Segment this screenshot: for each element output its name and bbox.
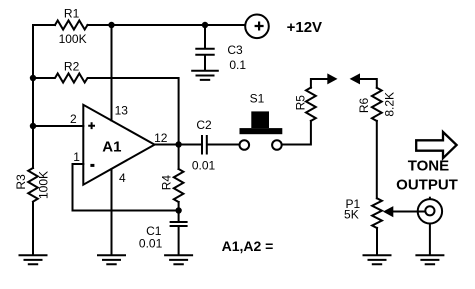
- junction node R4 C1: [175, 207, 181, 213]
- junction dot top rail C3: [202, 22, 208, 28]
- svg-text:+12V: +12V: [287, 19, 322, 36]
- wire left rail lower: [32, 202, 34, 254]
- svg-text:A1: A1: [102, 138, 121, 155]
- svg-text:4: 4: [119, 171, 126, 185]
- ground jack: [415, 255, 444, 264]
- wire arrow to R6: [360, 79, 377, 88]
- resistor R6: [372, 88, 382, 121]
- wire output node down: [178, 145, 180, 170]
- svg-text:OUTPUT: OUTPUT: [396, 176, 458, 193]
- wire top rail left segment: [33, 24, 55, 26]
- svg-text:12: 12: [154, 131, 168, 145]
- capacitor C2: [202, 136, 207, 154]
- svg-text:2: 2: [70, 112, 77, 126]
- wire R4 to node: [178, 202, 180, 221]
- svg-text:C3: C3: [227, 43, 243, 57]
- wire pin1 feedback: [73, 164, 179, 211]
- ground C3: [191, 71, 219, 80]
- resistor R2: [33, 74, 179, 145]
- switch S1 contact right: [272, 140, 282, 150]
- wire top rail right segment to +12V: [88, 24, 245, 26]
- ground P1: [363, 255, 392, 264]
- svg-text:R1: R1: [64, 7, 80, 21]
- wire C3 to ground: [204, 56, 206, 70]
- arrow to R6: [350, 73, 360, 84]
- svg-text:100K: 100K: [59, 32, 87, 46]
- svg-text:R4: R4: [159, 175, 173, 191]
- op-amp plus input mark: [88, 122, 95, 129]
- potentiometer P1: [372, 198, 382, 228]
- op-amp A1 triangle: [83, 105, 154, 185]
- resistor R1: [55, 21, 88, 30]
- wire R6 to P1: [376, 121, 378, 198]
- wire output pin12: [155, 144, 201, 146]
- capacitor C3: [196, 49, 213, 55]
- svg-text:R2: R2: [64, 59, 80, 73]
- wire pin2 input: [33, 125, 83, 127]
- switch S1 contact left: [240, 140, 250, 150]
- wire left rail upper: [32, 25, 34, 168]
- resistor R5: [306, 88, 316, 121]
- wire S1 to R5: [282, 121, 311, 145]
- wire C3 drop: [204, 25, 206, 48]
- svg-text:R5: R5: [294, 95, 308, 111]
- ground C1: [164, 255, 193, 264]
- ground left rail: [19, 255, 48, 264]
- output jack pin: [425, 206, 434, 215]
- output jack outer: [418, 199, 442, 223]
- resistor R4: [174, 169, 184, 202]
- wire C1 to ground: [178, 227, 180, 254]
- capacitor C1: [171, 222, 187, 226]
- svg-text:0.01: 0.01: [139, 237, 163, 251]
- svg-text:0.1: 0.1: [229, 58, 246, 72]
- junction dot top rail pin13: [108, 22, 114, 28]
- resistor R3: [28, 168, 38, 202]
- svg-text:R3: R3: [14, 174, 28, 190]
- wire jack to ground: [429, 224, 431, 254]
- svg-text:100K: 100K: [36, 171, 50, 199]
- svg-text:C2: C2: [196, 118, 212, 132]
- junction node output: [175, 141, 181, 147]
- svg-text:13: 13: [115, 104, 129, 118]
- svg-text:5K: 5K: [344, 207, 359, 221]
- wire pin4 to ground: [111, 169, 113, 254]
- svg-text:TONE: TONE: [408, 158, 449, 175]
- wire P1 to ground: [376, 228, 378, 254]
- output jack top tick: [429, 197, 431, 200]
- junction dot R2 left: [30, 75, 36, 81]
- wire wiper inside jack: [416, 211, 426, 213]
- svg-text:S1: S1: [250, 92, 265, 106]
- plus sign in supply: [255, 22, 264, 31]
- wire wiper to jack outer: [393, 211, 417, 213]
- power supply circle +12V: [245, 14, 269, 38]
- svg-text:0.01: 0.01: [192, 158, 216, 172]
- svg-text:8.2K: 8.2K: [383, 92, 397, 117]
- wire pin13 drop: [111, 25, 113, 121]
- switch S1 button: [251, 111, 269, 128]
- op-amp minus input mark: [90, 164, 94, 167]
- junction dot pin2 left: [30, 123, 36, 129]
- arrow from R5: [327, 73, 337, 84]
- svg-text:R6: R6: [357, 98, 371, 114]
- wiper arrow P1: [383, 206, 393, 217]
- wire R5 to arrow: [311, 79, 328, 88]
- svg-text:A1,A2 =: A1,A2 =: [222, 238, 274, 254]
- ground pin4: [97, 255, 126, 264]
- big arrow tone output: [416, 132, 456, 158]
- wire C2 to S1: [208, 144, 239, 146]
- svg-text:1: 1: [73, 150, 80, 164]
